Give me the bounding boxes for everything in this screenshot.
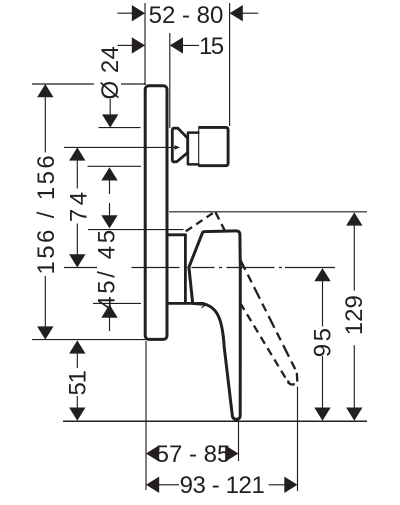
neck tick (202, 303, 207, 307)
dim 93-121 stubs (159, 484, 180, 486)
dim 129 stems (353, 225, 355, 291)
dashed handle (raised position) (186, 212, 297, 385)
escutcheon plate (145, 86, 167, 340)
dim 95 stems (322, 281, 324, 327)
svg-text:15: 15 (199, 33, 224, 60)
extension line plate top (32, 83, 94, 85)
dim 52-80 tails (118, 12, 133, 14)
dim 129 arrows (346, 212, 362, 225)
svg-text:Ø 24: Ø 24 (97, 45, 124, 99)
dim O24 stem (109, 99, 111, 115)
svg-text:95: 95 (310, 326, 337, 358)
spout centerline (64, 146, 179, 148)
sleeve right edge (184, 235, 187, 303)
dim 74 arrows (69, 147, 85, 160)
dashed lever upper edge (216, 212, 226, 232)
dim 74 stems (76, 160, 78, 189)
dim 45 upper arrows (101, 167, 117, 180)
svg-text:93 - 121: 93 - 121 (180, 472, 265, 499)
handle hub and lever (189, 231, 240, 419)
dim O24 down arrow (102, 114, 118, 127)
dim 15 tails (118, 44, 133, 46)
extension line spout base face (169, 33, 171, 128)
extension line dashed-handle top (169, 211, 367, 213)
dim 95 arrows (314, 268, 330, 281)
extension line plate bottom (32, 339, 146, 341)
extension line below: dashed handle front (297, 387, 299, 492)
extension line below: handle front (238, 421, 240, 461)
svg-text:74: 74 (65, 188, 92, 222)
sleeve top edge (169, 233, 186, 236)
svg-text:45/ 45: 45/ 45 (94, 227, 121, 309)
extension line left plate face (top) (144, 3, 146, 85)
spout ring (188, 133, 199, 165)
extension line spout front face (229, 3, 231, 126)
dim 15 arrows (132, 37, 145, 53)
svg-text:156 / 156: 156 / 156 (33, 153, 60, 275)
dim 51 arrows (69, 340, 85, 353)
handle centerline (left part) (64, 267, 97, 269)
extension line spout top (99, 127, 141, 129)
dim 57-85 arrows (146, 445, 159, 461)
dim 156 arrows (37, 84, 53, 97)
extension line below: plate face (145, 341, 147, 490)
spout cone (172, 128, 187, 162)
svg-text:129: 129 (341, 295, 368, 335)
svg-text:52 - 80: 52 - 80 (149, 2, 224, 29)
dim 52-80 arrows (132, 5, 145, 21)
dim 45 stems (109, 180, 111, 194)
spout cap (200, 127, 229, 165)
svg-text:51: 51 (64, 370, 91, 395)
dim 51 stems (76, 353, 78, 369)
wall / mounting baseline (63, 420, 367, 422)
handle centerline (right part) (132, 267, 286, 269)
sleeve bottom edge (169, 302, 204, 305)
centerline mini arrow (175, 145, 181, 150)
dashed hub back slant (186, 212, 215, 231)
dim 93-121 arrows (146, 477, 159, 493)
svg-text:57 - 85: 57 - 85 (156, 441, 231, 468)
spout joint line (198, 129, 200, 165)
dashed lever lower edge (240, 303, 289, 384)
extension line 45/45 bottom (93, 302, 141, 304)
dashed lever tip (288, 373, 297, 385)
extension line spout bottom (88, 165, 142, 167)
dim 156 stems (44, 96, 46, 153)
extension line 45/45 top (88, 229, 184, 231)
dim 45 lower arrow (101, 305, 117, 318)
